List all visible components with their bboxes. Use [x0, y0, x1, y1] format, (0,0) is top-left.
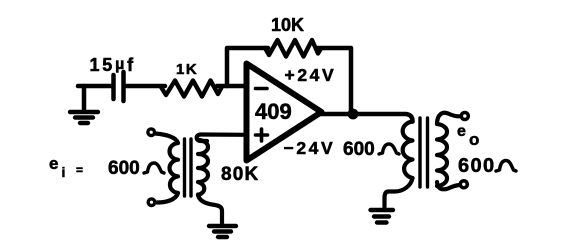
wire output — [320, 114, 413, 122]
svg-text:e: e — [49, 154, 58, 173]
svg-text:600: 600 — [458, 155, 496, 177]
svg-text:10K: 10K — [271, 15, 304, 35]
capacitor C1 15uf plates — [111, 75, 116, 99]
svg-text:−24V: −24V — [284, 138, 336, 158]
label sine right — [496, 161, 516, 172]
svg-text:e: e — [457, 123, 466, 140]
op-amp plus input mark — [256, 129, 268, 141]
svg-text:o: o — [469, 130, 479, 149]
wire capacitor to resistor — [126, 84, 165, 89]
resistor R1 1K — [161, 81, 222, 97]
T2 secondary coil — [437, 124, 447, 186]
svg-text:15µf: 15µf — [90, 55, 136, 75]
svg-text:409: 409 — [255, 99, 292, 124]
svg-text:1K: 1K — [176, 61, 198, 78]
T1 wire bottom lead — [157, 193, 178, 203]
input transformer T1 terminal ring top — [148, 129, 155, 136]
T1 core — [183, 139, 186, 196]
T1 terminal ring bottom — [148, 199, 155, 206]
svg-text:600: 600 — [343, 139, 375, 160]
wire feedback left riser — [227, 48, 268, 86]
ground G2 — [209, 226, 236, 237]
svg-text:=: = — [76, 163, 83, 177]
T1 wire top lead — [156, 134, 179, 144]
T2 wire secondary bottom lead — [437, 182, 460, 189]
op-amp minus input mark — [256, 87, 268, 91]
T1 wire secondary top to op-amp — [197, 135, 245, 142]
label sine mid — [379, 144, 399, 154]
T1 primary coil — [170, 143, 178, 193]
wire resistor to op-amp — [217, 84, 245, 89]
T1 secondary coil — [198, 140, 208, 195]
op-amp U1 409 — [247, 64, 322, 161]
wire ground drop — [82, 86, 87, 109]
output transformer T2 primary coil — [403, 122, 413, 179]
wire input left segment — [78, 84, 112, 89]
T2 core — [418, 118, 421, 187]
ground G3 — [371, 210, 394, 223]
T2 terminal ring bottom — [460, 181, 467, 188]
svg-text:80K: 80K — [221, 164, 259, 185]
T2 terminal ring top — [461, 113, 468, 120]
svg-text:i: i — [62, 164, 66, 180]
T1 wire secondary bottom to ground — [198, 195, 222, 225]
resistor R2 10K — [265, 40, 321, 57]
wire feedback right riser — [318, 48, 351, 112]
node feedback junction dot — [348, 109, 359, 120]
svg-text:+24V: +24V — [285, 65, 337, 85]
label sine input — [144, 163, 164, 173]
T2 wire secondary top lead — [437, 113, 460, 124]
ground G1 — [70, 112, 98, 123]
svg-text:600: 600 — [108, 158, 140, 179]
T2 wire primary bottom to ground — [385, 178, 413, 207]
